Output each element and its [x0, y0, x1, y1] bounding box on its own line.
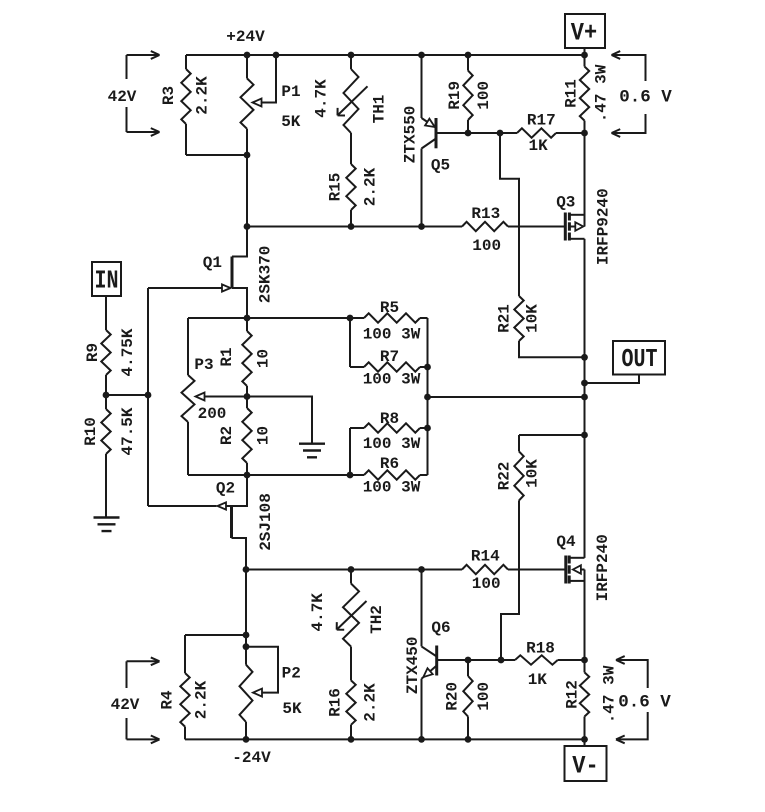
- svg-text:Q1: Q1: [203, 254, 222, 272]
- svg-text:ZTX550: ZTX550: [401, 106, 419, 164]
- svg-text:TH2: TH2: [368, 605, 386, 634]
- port V+: [565, 14, 605, 55]
- svg-text:P1: P1: [281, 83, 300, 101]
- svg-text:10: 10: [255, 426, 273, 445]
- wire R22 link: [501, 500, 519, 660]
- svg-text:42V: 42V: [108, 88, 137, 106]
- svg-text:R5: R5: [380, 299, 399, 317]
- wire R3 bottom: [186, 154, 247, 156]
- thermistor TH2: [309, 570, 386, 647]
- svg-text:100: 100: [472, 237, 501, 255]
- port OUT: [613, 341, 665, 375]
- svg-text:IRFP240: IRFP240: [594, 534, 612, 601]
- svg-text:IN: IN: [94, 266, 118, 295]
- svg-text:2.2K: 2.2K: [362, 167, 380, 206]
- resistor R3: [160, 55, 212, 155]
- svg-text:10: 10: [255, 349, 273, 368]
- wire TH1-R15: [350, 133, 352, 164]
- svg-text:2.2K: 2.2K: [194, 76, 212, 115]
- svg-text:0.6 V: 0.6 V: [618, 693, 671, 713]
- svg-text:OUT: OUT: [622, 345, 658, 374]
- svg-text:.47 3W: .47 3W: [593, 64, 611, 122]
- svg-text:100 3W: 100 3W: [363, 370, 421, 388]
- svg-text:100 3W: 100 3W: [363, 326, 421, 344]
- resistor R4: [159, 635, 211, 739]
- svg-text:200: 200: [198, 405, 227, 423]
- svg-text:4.7K: 4.7K: [309, 593, 327, 632]
- node +24V label: [226, 28, 265, 46]
- wire bank mid to OUT: [428, 396, 585, 398]
- svg-text:ZTX450: ZTX450: [404, 636, 422, 694]
- svg-text:100: 100: [472, 575, 501, 593]
- svg-text:R19: R19: [446, 81, 464, 110]
- port V-: [565, 739, 607, 781]
- wire Q1 source line: [188, 317, 350, 319]
- annotation 0.6V bottom: [616, 656, 671, 743]
- resistor R17: [517, 112, 585, 156]
- resistor R1: [218, 318, 273, 397]
- wire P3 bottom line: [188, 474, 350, 476]
- svg-text:R22: R22: [496, 462, 514, 491]
- resistor R2: [218, 397, 273, 476]
- svg-text:.47 3W: .47 3W: [601, 665, 619, 723]
- resistor R20: [444, 660, 494, 739]
- potentiometer P3: [182, 318, 248, 475]
- svg-text:Q6: Q6: [431, 619, 450, 637]
- transistor Q2: [148, 475, 275, 570]
- resistor R8: [350, 410, 428, 453]
- svg-text:IRFP9240: IRFP9240: [595, 188, 613, 265]
- svg-text:R12: R12: [564, 680, 582, 709]
- svg-text:R16: R16: [327, 688, 345, 717]
- svg-text:1K: 1K: [528, 671, 548, 689]
- svg-text:+24V: +24V: [226, 28, 265, 46]
- svg-text:42V: 42V: [111, 696, 140, 714]
- port IN: [92, 262, 121, 330]
- resistor R12: [564, 660, 619, 739]
- resistor R19: [446, 55, 493, 133]
- svg-text:4.75K: 4.75K: [119, 328, 137, 376]
- wire bank left bottom: [349, 428, 351, 475]
- transistor Q5: [401, 55, 468, 227]
- svg-text:100: 100: [475, 682, 493, 711]
- resistor R18: [515, 639, 585, 689]
- resistor R10: [82, 395, 137, 518]
- svg-text:P3: P3: [194, 356, 213, 374]
- wire upper bias line: [247, 226, 462, 228]
- wire lower bias line: [246, 569, 462, 571]
- wire: [246, 155, 248, 227]
- svg-text:R4: R4: [159, 690, 177, 710]
- resistor R11: [563, 55, 611, 133]
- svg-text:1K: 1K: [528, 137, 548, 155]
- svg-text:100: 100: [475, 81, 493, 110]
- svg-text:Q4: Q4: [556, 533, 576, 551]
- resistor R5: [350, 299, 428, 344]
- resistor R9: [84, 328, 137, 395]
- wire R4 top: [185, 634, 246, 636]
- svg-text:R14: R14: [471, 548, 500, 566]
- svg-text:2SJ108: 2SJ108: [257, 493, 275, 551]
- wire R21 link: [500, 133, 519, 296]
- resistor R14: [462, 548, 566, 593]
- svg-text:V-: V-: [572, 752, 598, 781]
- svg-text:R9: R9: [84, 343, 102, 362]
- svg-text:TH1: TH1: [371, 95, 389, 124]
- svg-text:2.2K: 2.2K: [362, 683, 380, 722]
- svg-text:Q2: Q2: [216, 479, 235, 497]
- svg-text:R6: R6: [380, 455, 399, 473]
- svg-text:100 3W: 100 3W: [363, 435, 421, 453]
- wire input to gates: [106, 394, 148, 396]
- wire gate column: [147, 288, 149, 506]
- svg-text:10K: 10K: [524, 459, 542, 488]
- svg-text:R20: R20: [444, 682, 462, 711]
- svg-text:R7: R7: [380, 348, 399, 366]
- svg-text:R18: R18: [526, 639, 555, 657]
- svg-text:V+: V+: [571, 19, 597, 48]
- svg-text:4.7K: 4.7K: [313, 79, 331, 118]
- transistor Q1: [148, 227, 275, 319]
- svg-text:R10: R10: [82, 417, 100, 446]
- potentiometer P2: [240, 570, 303, 740]
- resistor R13: [462, 205, 565, 255]
- thermistor TH1: [313, 55, 389, 133]
- wire TH2-R16: [350, 647, 352, 681]
- svg-text:2SK370: 2SK370: [257, 246, 275, 304]
- wire bank left top: [349, 318, 351, 367]
- svg-text:R15: R15: [327, 173, 345, 202]
- svg-text:R2: R2: [218, 426, 236, 445]
- svg-text:R11: R11: [563, 79, 581, 108]
- svg-text:R3: R3: [160, 86, 178, 105]
- svg-text:P2: P2: [282, 665, 301, 683]
- svg-text:10K: 10K: [524, 304, 542, 333]
- wire +24V rail: [186, 54, 585, 56]
- wire Q6 base line: [468, 659, 515, 661]
- wire bank right: [427, 318, 429, 475]
- svg-text:R13: R13: [471, 205, 500, 223]
- resistor R6: [350, 455, 428, 497]
- annotation 42V bottom: [111, 657, 160, 743]
- svg-text:R17: R17: [527, 112, 556, 130]
- resistor R15: [327, 164, 380, 227]
- svg-text:2.2K: 2.2K: [193, 680, 211, 719]
- svg-text:0.6 V: 0.6 V: [619, 88, 672, 108]
- svg-text:100 3W: 100 3W: [363, 479, 421, 497]
- svg-text:47.5K: 47.5K: [119, 407, 137, 455]
- transistor Q4: [556, 435, 611, 660]
- node -24V label: [232, 749, 271, 767]
- svg-text:R8: R8: [380, 410, 399, 428]
- svg-text:-24V: -24V: [232, 749, 271, 767]
- svg-text:Q5: Q5: [431, 157, 450, 175]
- wire OUT rail: [584, 357, 586, 558]
- annotation 42V top: [108, 51, 160, 136]
- annotation 0.6V top: [612, 51, 673, 137]
- ground mid: [247, 397, 325, 458]
- svg-text:Q3: Q3: [556, 194, 575, 212]
- wire -24V rail: [185, 738, 585, 740]
- resistor R7: [350, 348, 428, 389]
- svg-text:R1: R1: [218, 347, 236, 366]
- svg-text:5K: 5K: [281, 113, 301, 131]
- transistor Q3: [556, 133, 613, 357]
- resistor R16: [327, 680, 380, 739]
- wire OUT stub: [585, 375, 640, 384]
- svg-text:R21: R21: [496, 304, 514, 333]
- potentiometer P1: [241, 55, 301, 155]
- transistor Q6: [404, 570, 468, 740]
- wire Q5 base line: [468, 132, 517, 134]
- svg-text:5K: 5K: [282, 700, 302, 718]
- resistor R21: [496, 296, 585, 357]
- ground input: [94, 518, 120, 532]
- resistor R22: [496, 435, 585, 500]
